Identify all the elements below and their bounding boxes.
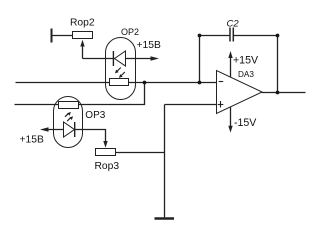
- svg-text:OP3: OP3: [85, 110, 105, 121]
- svg-text:DA3: DA3: [238, 70, 254, 79]
- svg-text:-15V: -15V: [234, 117, 257, 129]
- svg-text:Rop2: Rop2: [70, 18, 95, 29]
- svg-text:C2: C2: [227, 19, 240, 30]
- svg-text:+15B: +15B: [137, 40, 161, 51]
- svg-text:+15V: +15V: [233, 54, 259, 66]
- svg-text:OP2: OP2: [121, 27, 139, 37]
- svg-text:Rop3: Rop3: [95, 161, 120, 172]
- svg-text:+15B: +15B: [20, 134, 44, 145]
